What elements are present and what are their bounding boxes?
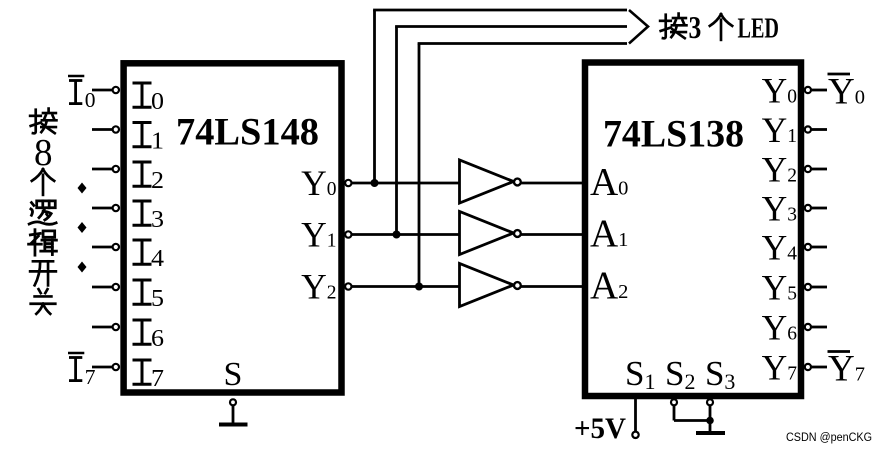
svg-text:CSDN @penCKG: CSDN @penCKG bbox=[786, 432, 872, 444]
pin Y2 of U1 (active-low bubble) bbox=[345, 283, 351, 289]
svg-text:Y4: Y4 bbox=[762, 228, 798, 268]
svg-text:7: 7 bbox=[85, 365, 96, 389]
wire inverter U4 output to U2 pin A1 bbox=[521, 233, 585, 236]
wire S3 to ground bbox=[709, 405, 712, 433]
svg-text:3: 3 bbox=[689, 9, 702, 45]
svg-text:3: 3 bbox=[151, 207, 164, 233]
wire S2 down bbox=[673, 405, 676, 420]
svg-text:A0: A0 bbox=[590, 161, 628, 204]
junction node on Y2 wire bbox=[415, 283, 423, 291]
pin Y1 of U1 (active-low bubble) bbox=[345, 231, 351, 237]
svg-text:Y2: Y2 bbox=[301, 267, 336, 307]
net label Y7-bar (output net) bbox=[828, 349, 865, 390]
caption char 辑 (logic-2) bbox=[29, 230, 57, 256]
top horizontal wire Y0 to LED arrow bbox=[373, 9, 627, 12]
pin label I2 inside U1 bbox=[133, 162, 165, 194]
pin S of U1 bubble bbox=[230, 399, 236, 405]
wire Y1 from U1 to inverter input bbox=[352, 233, 460, 236]
svg-text:1: 1 bbox=[151, 128, 164, 154]
ground symbol below U1 S pin bbox=[219, 423, 248, 427]
inverter U3 triangle bbox=[460, 160, 514, 203]
wire inverter U3 output to U2 pin A0 bbox=[521, 182, 585, 185]
pin Y4 of U2 (bubble + stub wire) bbox=[805, 244, 827, 250]
svg-text:Y7: Y7 bbox=[762, 348, 798, 388]
junction node on Y1 wire bbox=[393, 231, 401, 239]
pin I7 of U1 (stub wire + active-low bubble) bbox=[92, 364, 119, 370]
caption char 个 (counter) bbox=[32, 169, 54, 195]
pin S3 of U2 bubble bbox=[707, 399, 713, 405]
caption char 逻 (logic-1) bbox=[29, 201, 56, 224]
svg-text:74LS138: 74LS138 bbox=[603, 113, 744, 156]
pin Y0 of U2 (bubble + stub wire) bbox=[805, 87, 827, 93]
svg-text:LED: LED bbox=[738, 14, 780, 45]
wire S2 to S3 bbox=[674, 419, 710, 422]
IC U1 74LS148 body bbox=[124, 63, 342, 392]
svg-text:+5V: +5V bbox=[574, 413, 626, 445]
wire from S pin to ground bbox=[232, 405, 235, 423]
wire inverter U5 output to U2 pin A2 bbox=[521, 285, 585, 288]
wire Y0 from U1 to inverter input bbox=[352, 182, 460, 185]
svg-text:Y0: Y0 bbox=[762, 71, 797, 111]
pin I0 of U1 (stub wire + active-low bubble) bbox=[92, 87, 119, 93]
pin label I4 inside U1 bbox=[133, 240, 165, 272]
svg-text:Y0: Y0 bbox=[828, 72, 865, 113]
svg-text:A1: A1 bbox=[590, 212, 628, 255]
net label Y0-bar (output net) bbox=[828, 72, 865, 113]
caption char 关 (switch-2) bbox=[31, 289, 56, 314]
svg-text:S1S2S3: S1S2S3 bbox=[625, 354, 735, 394]
wire Y2 from U1 to inverter input bbox=[352, 285, 460, 288]
inverter U5 triangle bbox=[460, 264, 514, 307]
svg-text:0: 0 bbox=[85, 88, 96, 112]
pin label I6 inside U1 bbox=[133, 320, 165, 352]
inverter U4 output bubble bbox=[514, 230, 521, 237]
svg-text:Y1: Y1 bbox=[301, 215, 336, 255]
ellipsis diamond 1 between input stubs bbox=[78, 183, 87, 194]
inverter U4 triangle bbox=[460, 212, 514, 255]
arrow head to LEDs bbox=[629, 10, 648, 44]
pin I5 of U1 (stub wire + active-low bubble) bbox=[92, 284, 119, 290]
pin I2 of U1 (stub wire + active-low bubble) bbox=[92, 166, 119, 172]
svg-text:5: 5 bbox=[151, 286, 164, 312]
pin label I1 inside U1 bbox=[133, 123, 165, 155]
pin Y3 of U2 (bubble + stub wire) bbox=[805, 205, 827, 211]
pin I6 of U1 (stub wire + active-low bubble) bbox=[92, 324, 119, 330]
ellipsis diamond 3 between input stubs bbox=[78, 262, 87, 273]
junction node on Y0 wire bbox=[371, 179, 379, 187]
inverter U3 output bubble bbox=[514, 179, 521, 186]
wire S1 pin to +5V bbox=[634, 396, 637, 432]
svg-text:74LS148: 74LS148 bbox=[176, 111, 319, 154]
pin S2 of U2 bubble bbox=[671, 399, 677, 405]
svg-text:Y2: Y2 bbox=[762, 150, 797, 190]
caption char 开 (switch-1) bbox=[30, 261, 56, 285]
top horizontal wire Y2 to LED arrow bbox=[418, 42, 627, 45]
svg-text:2: 2 bbox=[151, 168, 164, 194]
pin label I3 inside U1 bbox=[133, 201, 165, 233]
svg-text:6: 6 bbox=[151, 326, 164, 352]
svg-text:7: 7 bbox=[151, 366, 164, 392]
riser wire Y0 to LED bus bbox=[373, 10, 376, 183]
pin Y6 of U2 (bubble + stub wire) bbox=[805, 324, 827, 330]
svg-text:S: S bbox=[224, 356, 243, 393]
top horizontal wire Y1 to LED arrow bbox=[395, 25, 627, 28]
pin I3 of U1 (stub wire + active-low bubble) bbox=[92, 205, 119, 211]
pin Y0 of U1 (active-low bubble) bbox=[345, 180, 351, 186]
pin I1 of U1 (stub wire + active-low bubble) bbox=[92, 126, 119, 132]
svg-text:Y7: Y7 bbox=[828, 349, 865, 390]
pin label I7 inside U1 bbox=[133, 360, 165, 392]
svg-text:Y1: Y1 bbox=[762, 110, 797, 150]
pin label I5 inside U1 bbox=[133, 280, 165, 312]
pin Y1 of U2 (bubble + stub wire) bbox=[805, 126, 827, 132]
svg-text:Y5: Y5 bbox=[762, 268, 797, 308]
svg-text:Y3: Y3 bbox=[762, 189, 797, 229]
net label I0-bar (input net) bbox=[68, 76, 96, 112]
LED caption char 接 bbox=[660, 14, 686, 39]
LED caption char 个 bbox=[710, 14, 732, 40]
IC U2 74LS138 body bbox=[585, 63, 801, 397]
pin Y7 of U2 (bubble + stub wire) bbox=[805, 364, 827, 370]
pin I4 of U1 (stub wire + active-low bubble) bbox=[92, 244, 119, 250]
ground symbol below S3 bbox=[696, 431, 725, 435]
junction node S2/S3 bbox=[706, 417, 714, 425]
riser wire Y2 to LED bus bbox=[418, 44, 421, 287]
pin label I0 inside U1 bbox=[133, 83, 165, 115]
svg-text:0: 0 bbox=[151, 89, 164, 115]
riser wire Y1 to LED bus bbox=[395, 27, 398, 235]
svg-text:Y6: Y6 bbox=[762, 308, 798, 348]
pin Y5 of U2 (bubble + stub wire) bbox=[805, 284, 827, 290]
caption char 接 (connect) bbox=[30, 109, 56, 134]
svg-text:Y0: Y0 bbox=[301, 163, 336, 203]
net label I7-bar (input net) bbox=[68, 353, 96, 389]
svg-text:4: 4 bbox=[151, 246, 164, 272]
inverter U5 output bubble bbox=[514, 282, 521, 289]
svg-text:A2: A2 bbox=[590, 264, 628, 307]
ellipsis diamond 2 between input stubs bbox=[78, 222, 87, 233]
terminal bubble on S1 wire bbox=[632, 432, 638, 438]
pin Y2 of U2 (bubble + stub wire) bbox=[805, 166, 827, 172]
